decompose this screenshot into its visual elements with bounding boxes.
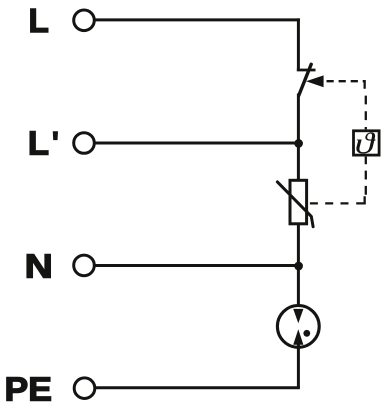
terminal circle L' <box>74 133 95 154</box>
theta box <box>354 131 380 155</box>
theta glyph <box>356 132 375 153</box>
gas tube dot <box>303 330 310 337</box>
junction dot L' <box>294 139 303 148</box>
wire L <box>95 18 300 21</box>
dashed link arrow to theta box: horizontal dashes <box>327 80 359 82</box>
svg-text:N: N <box>25 247 53 285</box>
gas discharge tube circle <box>277 306 319 348</box>
bus: gas tube to PE <box>297 344 300 388</box>
dashed link: vertical dashes to theta box bottom <box>365 157 367 195</box>
dashed link: corner piece <box>356 196 364 203</box>
varistor body <box>290 180 307 224</box>
dashed link: corner piece <box>363 81 365 89</box>
svg-text:L': L' <box>28 125 60 162</box>
svg-text:L: L <box>28 3 48 40</box>
bus: L corner down to switch <box>297 18 300 70</box>
varistor diagonal <box>277 182 313 227</box>
wire N <box>95 264 299 267</box>
gas tube upper arrowhead <box>293 309 303 323</box>
terminal circle PE <box>74 378 95 399</box>
wire PE <box>95 386 300 389</box>
bus: switch to varistor <box>297 94 300 181</box>
terminal circle L <box>74 10 95 31</box>
gas tube lower arrowhead <box>293 329 303 345</box>
bus: varistor to gas tube <box>297 224 300 311</box>
dashed link varistor to theta box: horizontal dashes <box>310 202 352 204</box>
dashed link: vertical dashes to theta box <box>365 96 367 130</box>
actuator arrow <box>306 75 324 87</box>
wire L' <box>95 142 299 145</box>
svg-text:PE: PE <box>5 371 52 408</box>
junction dot N <box>294 262 303 271</box>
switch fixed-contact tick <box>297 69 316 72</box>
terminal circle N <box>74 255 95 276</box>
switch blade <box>299 64 312 95</box>
